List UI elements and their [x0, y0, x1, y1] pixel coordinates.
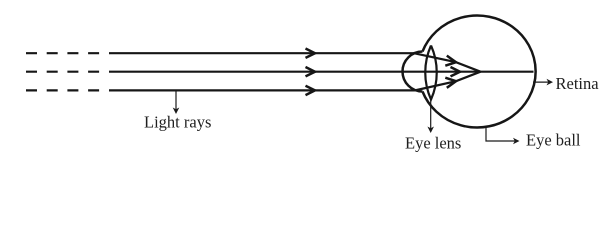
svg-text:Eye ball: Eye ball: [526, 131, 581, 150]
refracted ray bottom (converging): [415, 72, 481, 91]
dashed incident ray 3 (bottom): [26, 89, 100, 91]
eye ball pointer arrowhead: [513, 138, 520, 145]
light rays pointer line: [175, 91, 177, 110]
cornea arc: [403, 52, 423, 92]
light rays pointer arrowhead: [173, 108, 180, 115]
eye ball pointer elbow line: [486, 127, 516, 141]
arrowhead on middle ray inside eye: [451, 67, 461, 76]
solid ray 3 (bottom): [109, 89, 415, 91]
arrowhead on bottom refracted ray: [445, 78, 456, 88]
retina pointer line: [533, 81, 550, 83]
arrowhead on ray 2: [306, 67, 316, 76]
refracted ray top (converging): [415, 53, 481, 71]
svg-text:Retina: Retina: [556, 74, 600, 93]
solid ray 1 (top): [109, 52, 415, 54]
dashed incident ray 2 (middle): [26, 71, 100, 73]
solid ray 2 (middle, axis): [109, 71, 534, 73]
svg-text:Light rays: Light rays: [144, 113, 211, 132]
arrowhead on ray 1: [306, 49, 316, 58]
eye ball outline (opening at front-left): [423, 16, 536, 128]
arrowhead on ray 3: [306, 86, 316, 95]
arrowhead on top refracted ray: [445, 56, 456, 66]
eye lens pointer arrowhead: [427, 127, 434, 134]
retina pointer arrowhead: [547, 79, 554, 86]
dashed incident ray 1 (top): [26, 52, 100, 54]
eye lens pointer line: [430, 100, 432, 130]
eye lens (biconvex): [425, 46, 436, 100]
svg-text:Eye lens: Eye lens: [405, 133, 461, 152]
